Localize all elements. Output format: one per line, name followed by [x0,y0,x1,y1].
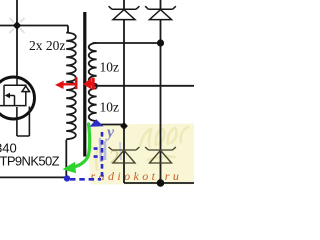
wire top bus (secondary top to D2) [93,42,161,44]
wire Q1 source U-link [17,107,30,137]
annotation red arrow right [83,78,93,90]
transistor Q1 internal symbol [0,77,30,106]
wire bottom-left bus [0,176,66,178]
wire D1 chain vertical [123,0,125,183]
node junction top-left [13,21,21,29]
svg-text:10z: 10z [100,100,120,115]
diode VD4 [145,147,176,163]
svg-text:radiokot.ru: radiokot.ru [91,169,183,183]
wire top-left vertical (drain feed) [16,0,18,77]
watermark faint letters [96,127,188,170]
annotation blue dot [64,175,70,181]
svg-text:2x 20z: 2x 20z [29,38,65,53]
diode VD1 [109,6,140,19]
watermark lavender strokes [100,138,121,162]
node junction bottom bus [157,179,165,187]
svg-text:y: y [105,124,115,141]
wire primary bottom exit [65,140,67,178]
wire secondary bottom exit [94,121,124,125]
transistor Q1 MOSFET body [0,77,35,119]
wire top horizontal [0,25,68,27]
svg-text:10z: 10z [100,60,120,75]
wire primary top entry [67,26,69,33]
wire secondary center tap stub [96,84,98,88]
transformer T1 primary winding 2x20 turns [66,33,76,140]
transistor Q1 gate arrow [5,93,10,98]
wire D2 chain vertical [160,0,162,183]
annotation green arrow [63,124,90,173]
jpeg artifact smudges [10,19,24,33]
annotation blue dashed path [70,132,102,179]
node junction D2 top bus [157,39,164,46]
annotation blue arrowhead [90,119,104,127]
annotation red arrow left [55,77,76,89]
transformer T1 core [83,12,86,157]
wire bottom-right bus [124,182,194,184]
diode VD3 [109,147,140,163]
transformer T1 secondary winding lower 10 turns [89,88,97,121]
node junction secondary bottom [120,122,128,130]
diode VD2 [145,6,176,19]
svg-text:TP9NK50Z: TP9NK50Z [0,154,60,169]
watermark yellow field [87,124,194,185]
transformer T1 secondary winding upper 10 turns [89,43,97,84]
wire middle bus (center tap to right edge) [94,85,194,87]
